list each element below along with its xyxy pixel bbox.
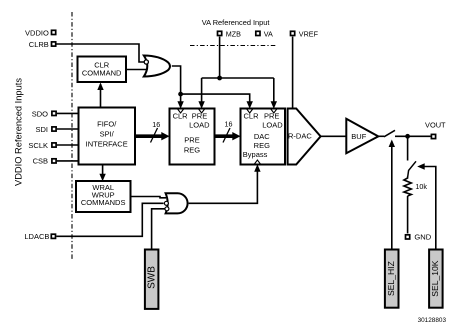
wire VOUT node down to switch 2 — [407, 136, 409, 160]
svg-text:INTERFACE: INTERFACE — [86, 140, 128, 149]
node VOUT junction — [405, 134, 410, 139]
pin CSB — [33, 157, 57, 166]
wire LDACB to AND gate — [56, 203, 163, 236]
svg-text:SPI/: SPI/ — [100, 130, 115, 139]
svg-text:VDDIO Referenced Inputs: VDDIO Referenced Inputs — [14, 78, 24, 186]
node MZB junction — [217, 76, 222, 81]
svg-text:VREF: VREF — [299, 29, 319, 38]
op-amp BUF — [346, 119, 378, 153]
svg-text:30128803: 30128803 — [418, 317, 447, 324]
svg-text:MZB: MZB — [226, 29, 241, 38]
block FIFO/SPI/INTERFACE — [79, 108, 136, 165]
svg-text:PRE: PRE — [184, 136, 199, 145]
wire switch to VOUT — [395, 135, 431, 137]
svg-text:16: 16 — [225, 120, 233, 129]
svg-text:SWB: SWB — [147, 266, 158, 289]
svg-text:DAC: DAC — [254, 132, 270, 141]
svg-text:LDACB: LDACB — [24, 232, 49, 241]
svg-text:REG: REG — [184, 146, 200, 155]
svg-text:SEL_10K: SEL_10K — [430, 260, 440, 297]
svg-text:VDDIO: VDDIO — [25, 28, 49, 37]
wire VREF to R-DAC — [292, 37, 294, 109]
svg-text:R-DAC: R-DAC — [288, 132, 312, 141]
svg-text:SDI: SDI — [35, 125, 48, 134]
pin GND — [406, 233, 432, 242]
svg-text:10k: 10k — [415, 182, 427, 191]
wire SEL_10K control — [420, 167, 436, 250]
wire CLR branch to DAC REG — [181, 94, 250, 106]
pin VDDIO — [25, 28, 56, 37]
svg-text:VOUT: VOUT — [425, 121, 446, 130]
wire FIFO to WRAL — [102, 165, 104, 180]
wire BUF to switch — [378, 135, 384, 137]
wire MZB horizontal — [202, 77, 274, 79]
svg-text:SEL_HIZ: SEL_HIZ — [386, 261, 396, 296]
wire MZB to DAC REG load — [273, 78, 275, 107]
svg-text:SDO: SDO — [32, 109, 48, 118]
notch DAC REG CLR — [247, 109, 253, 113]
wire SDO to FIFO — [57, 112, 79, 114]
block DAC REG — [241, 109, 286, 165]
block PRE REG — [170, 109, 215, 165]
bus FIFO to PRE REG (16) — [135, 120, 170, 143]
wire FIFO to CLR COMMAND — [100, 84, 102, 108]
wire MZB to PRE REG load — [201, 78, 203, 107]
block SWB — [145, 250, 159, 309]
svg-text:VA: VA — [264, 29, 273, 38]
svg-text:VA Referenced Input: VA Referenced Input — [202, 18, 270, 27]
svg-text:16: 16 — [152, 120, 160, 129]
svg-text:CLRB: CLRB — [29, 40, 49, 49]
notch PRE REG LOAD — [199, 109, 205, 113]
svg-text:REG: REG — [254, 141, 270, 150]
wire SDI to FIFO — [57, 128, 79, 130]
switch SEL_HIZ blade — [384, 130, 395, 137]
wire R-DAC to BUF — [321, 135, 347, 137]
svg-text:LOAD: LOAD — [262, 121, 283, 130]
wire WRAL to AND gate — [131, 197, 167, 198]
pin VREF — [291, 29, 319, 38]
notch PRE REG CLR — [178, 109, 184, 113]
svg-text:FIFO/: FIFO/ — [97, 120, 117, 129]
svg-text:GND: GND — [414, 233, 431, 242]
svg-text:SCLK: SCLK — [28, 141, 48, 150]
block SEL_10K — [429, 250, 443, 308]
block SEL_HIZ — [385, 250, 399, 308]
wire OR gate output to CLR net — [172, 66, 181, 94]
pin VOUT — [425, 121, 446, 139]
OR gate U1 (CLR) — [144, 56, 170, 77]
wire SWB to AND gate — [152, 209, 165, 250]
switch SEL_10K blade — [408, 161, 416, 177]
svg-text:Bypass: Bypass — [243, 150, 268, 159]
svg-text:CLR: CLR — [244, 112, 260, 121]
pin SCLK — [28, 141, 56, 150]
resistor 10k — [404, 177, 427, 197]
wire CLRB to OR gate — [57, 44, 145, 62]
pin CLRB — [29, 40, 56, 49]
pin LDACB — [24, 232, 55, 241]
svg-text:BUF: BUF — [351, 132, 366, 141]
bus PRE REG to DAC REG (16) — [215, 120, 241, 143]
notch DAC REG bypass — [254, 160, 260, 164]
pin SDO — [32, 109, 56, 118]
svg-text:COMMAND: COMMAND — [82, 69, 122, 78]
svg-text:COMMANDS: COMMANDS — [81, 198, 126, 207]
wire resistor to GND — [407, 196, 409, 233]
pin MZB — [218, 29, 242, 38]
AND gate U2 (load) — [164, 193, 187, 213]
wire SCLK to FIFO — [57, 144, 79, 146]
wire MZB down — [219, 37, 221, 78]
notch DAC REG LOAD — [271, 109, 277, 113]
svg-text:LOAD: LOAD — [189, 121, 210, 130]
converter R-DAC — [288, 109, 321, 165]
svg-text:CSB: CSB — [33, 157, 48, 166]
wire SEL_HIZ control — [391, 142, 393, 250]
svg-text:PRE: PRE — [192, 112, 207, 121]
wire CLR to PRE REG — [180, 94, 182, 106]
wire CSB to FIFO — [57, 160, 79, 162]
node CLR junction — [178, 92, 183, 97]
block CLR COMMAND — [78, 57, 127, 83]
wire CLR COMMAND to OR gate — [126, 69, 147, 71]
pin SDI — [35, 125, 56, 134]
dash-dot vertical VDDIO/VA domain boundary — [71, 12, 73, 260]
svg-text:PRE: PRE — [264, 112, 279, 121]
pin VA — [256, 29, 273, 38]
dash-dot horizontal VA domain boundary — [190, 45, 276, 47]
wire AND gate to DAC REG bypass — [189, 167, 258, 204]
block WRAL WRUP COMMANDS — [76, 181, 131, 212]
